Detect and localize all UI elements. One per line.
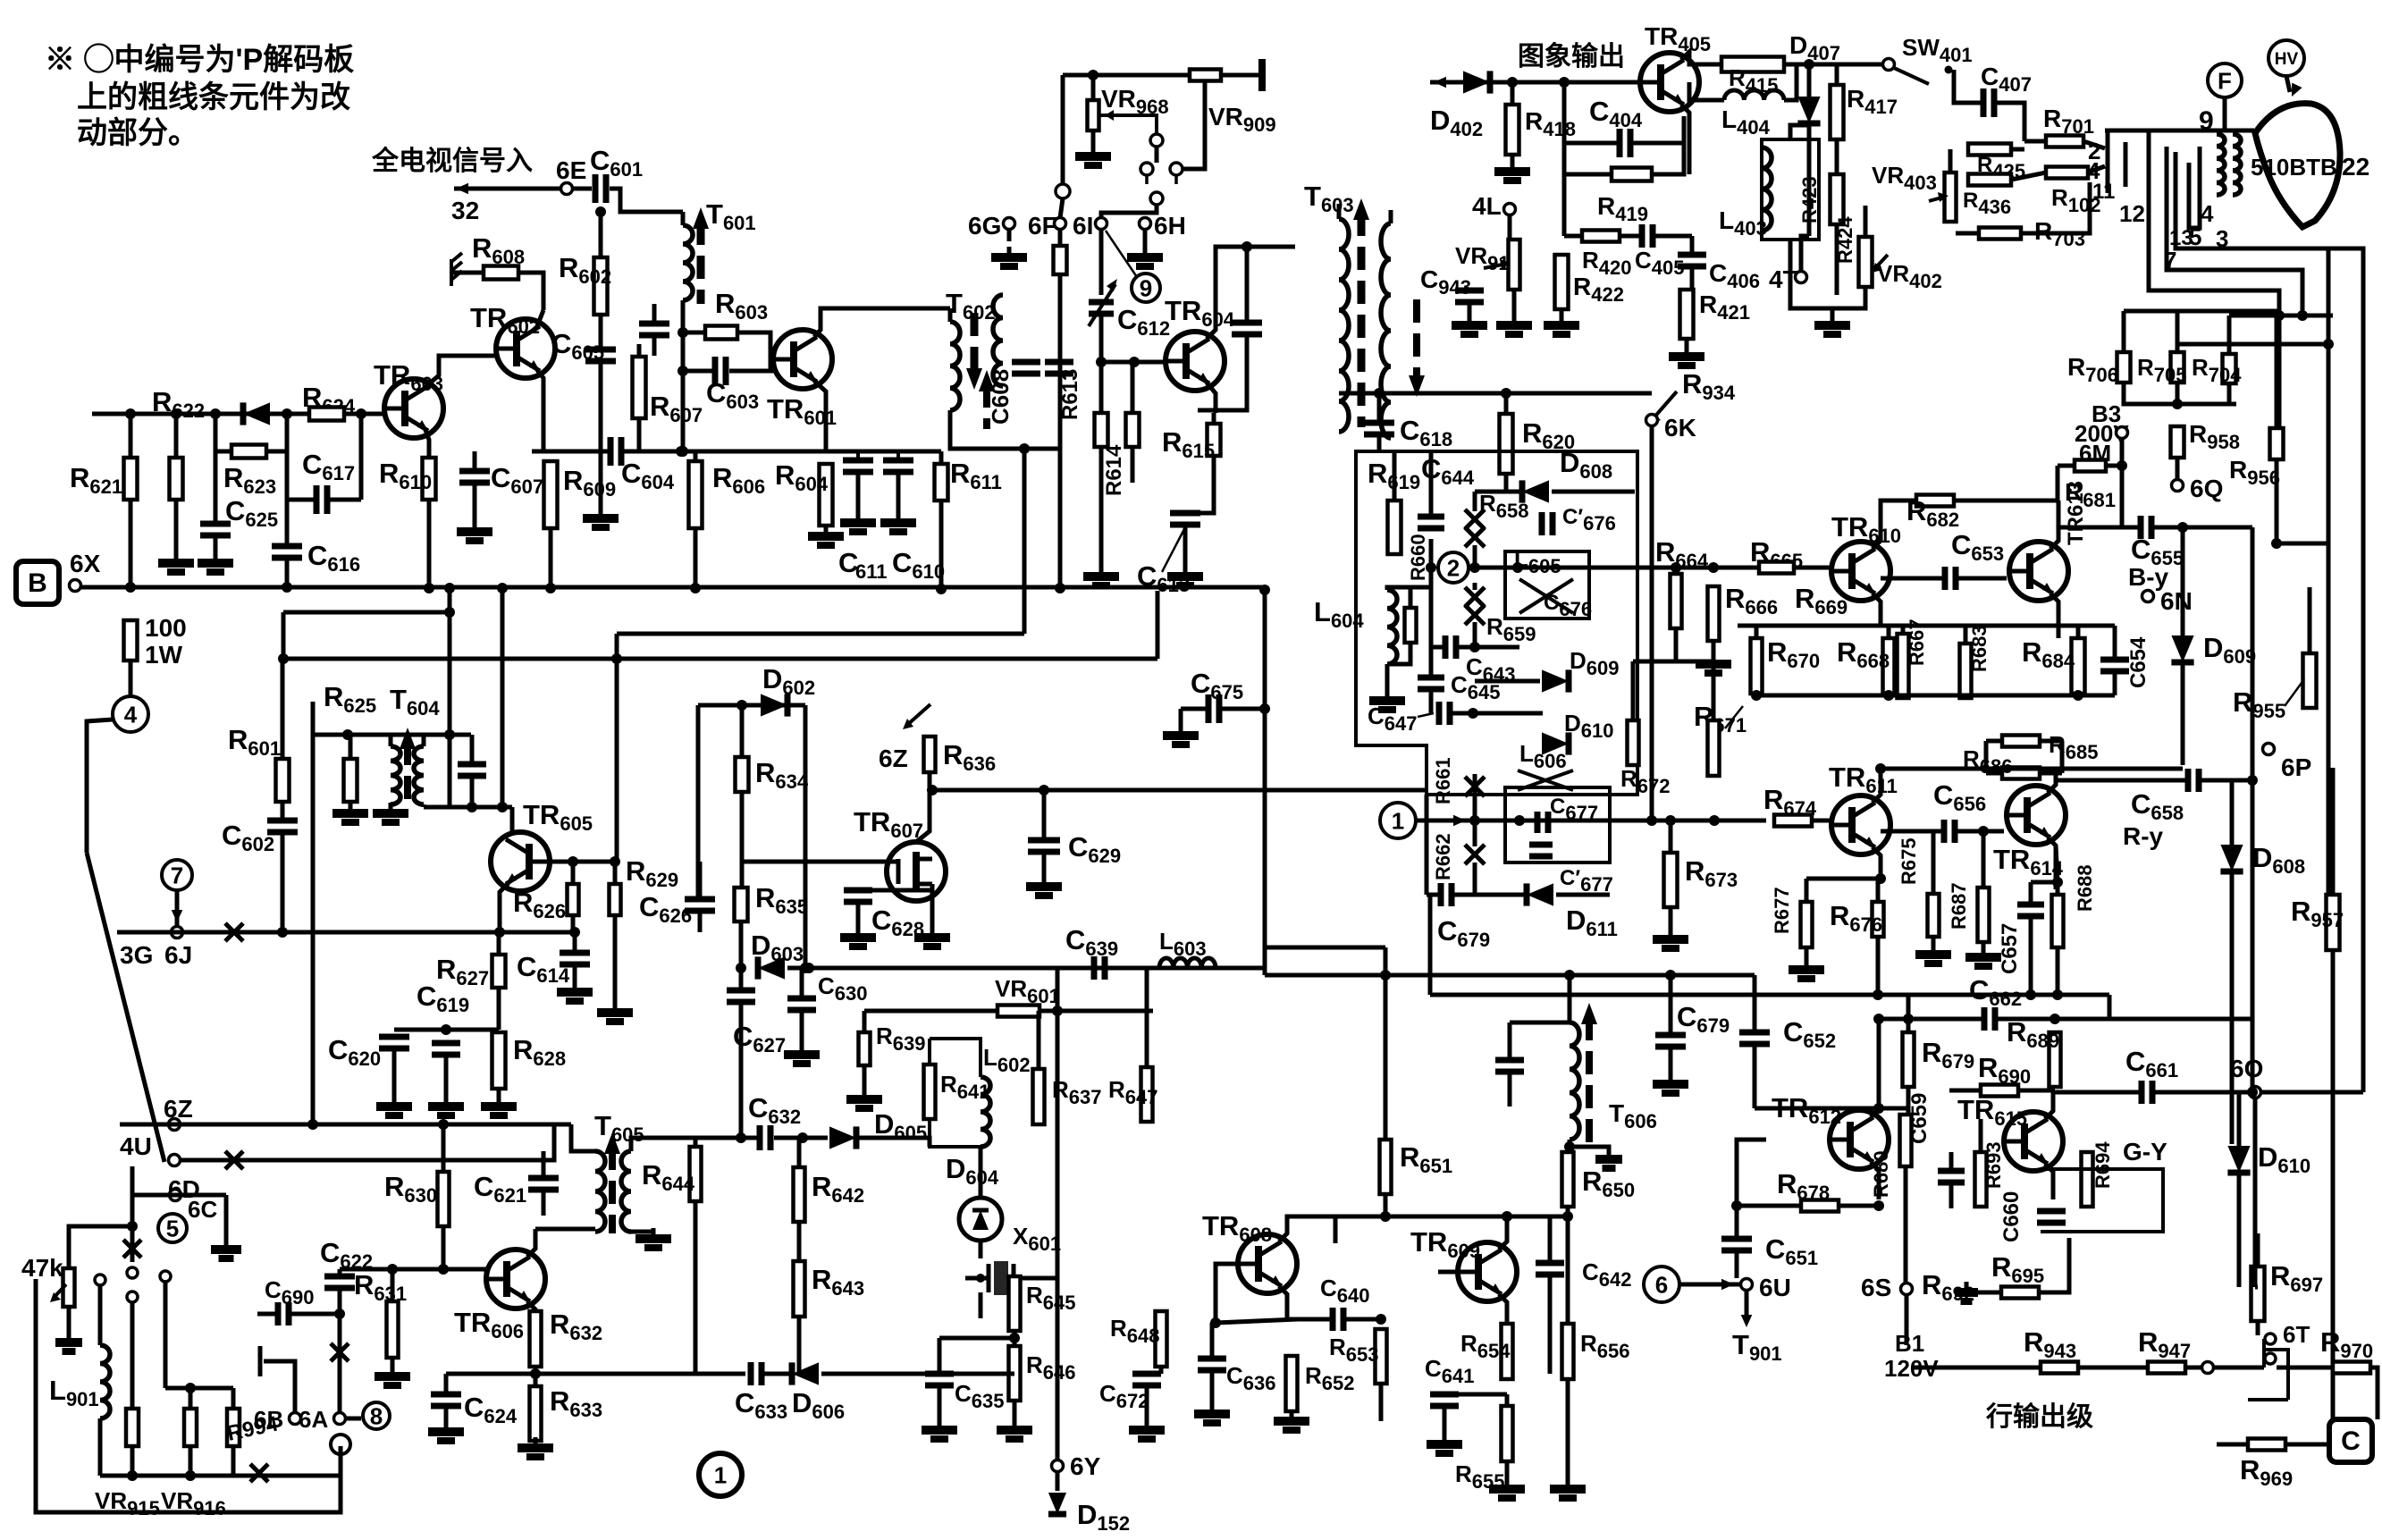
- wire TR609 emitter: [1499, 1294, 1507, 1324]
- wire R651 top: [1384, 975, 1388, 1140]
- wire rail 1085 to VR601 zone: [1057, 966, 1265, 971]
- wire C652 top: [1753, 975, 1757, 1032]
- resistor R641: [924, 1065, 936, 1119]
- capacitor C629: [1028, 840, 1060, 852]
- label C611 C610: [838, 547, 858, 578]
- wire rail 1113: [1430, 993, 2109, 997]
- junction bus R609: [545, 583, 556, 593]
- wire VR915 top: [130, 1302, 135, 1409]
- pot VR601: [997, 1006, 1039, 1017]
- label C604: [621, 458, 675, 493]
- label R706: [2067, 353, 2118, 386]
- svg-text:6N: 6N: [2160, 587, 2193, 615]
- wire rail 737: [283, 657, 1157, 661]
- wire T604 right coil down: [422, 804, 426, 807]
- resistor R652: [1286, 1356, 1298, 1411]
- terminal 6G: [1004, 218, 1015, 230]
- label 3G: [120, 941, 153, 969]
- wire C679b top: [1669, 975, 1673, 1035]
- wire C654 bottom: [2113, 671, 2117, 695]
- wire rail 860 TR611: [1881, 767, 2056, 771]
- wire R611 to bus: [939, 501, 944, 589]
- ground under T604: [373, 803, 408, 822]
- resistor R681: [2075, 460, 2106, 472]
- capacitor C635: [925, 1374, 954, 1385]
- junction rail1361 R651: [1380, 1211, 1391, 1222]
- label R703: [2034, 217, 2085, 250]
- pin label 12: [2119, 200, 2145, 227]
- svg-text:5: 5: [166, 1215, 179, 1241]
- label R607: [650, 391, 703, 426]
- wire R628 gnd: [497, 1089, 501, 1099]
- junction rail1361 TR609c: [1502, 1211, 1512, 1222]
- wire C624 rail: [446, 1372, 535, 1376]
- junction node1 b: [1709, 815, 1720, 826]
- wire tank bottom: [470, 776, 475, 807]
- wire 6H lead: [1143, 229, 1148, 247]
- wire C618 top: [1377, 393, 1382, 423]
- wire R690 right: [2018, 1089, 2055, 1093]
- capacitor C613: [1170, 513, 1200, 525]
- label 22: [2342, 153, 2369, 181]
- wire R642 top: [797, 1138, 802, 1167]
- label R652: [1305, 1362, 1355, 1394]
- transformer T603 core B: [1409, 299, 1425, 397]
- wire C662 left: [1879, 1017, 1983, 1022]
- resistor R627: [492, 955, 506, 988]
- junction at C605 column: [595, 206, 606, 217]
- wire 6Y col: [1056, 1278, 1060, 1460]
- ground C636: [1194, 1403, 1230, 1423]
- capacitor C608b: [1045, 362, 1073, 374]
- svg-text:C657: C657: [1998, 923, 2022, 974]
- switch contact 6I upper: [1150, 192, 1163, 205]
- node 6 circle: [1644, 1267, 1679, 1302]
- inductor L602: [981, 1077, 990, 1147]
- wire R656 gnd: [1566, 1379, 1570, 1482]
- wire TR608 base lead: [1216, 1264, 1238, 1323]
- label R641: [940, 1071, 990, 1103]
- label L404: [1721, 105, 1771, 139]
- wire F to coil: [2223, 97, 2227, 130]
- wire R417 down: [1835, 139, 1839, 174]
- wire pin3 staircase: [2176, 152, 2328, 895]
- wire R629 down: [613, 915, 618, 1006]
- label D407: [1789, 31, 1840, 64]
- label D152: [1077, 1499, 1130, 1535]
- wire HV to yoke: [2286, 76, 2290, 92]
- wire R419 right: [1652, 143, 1684, 174]
- wire x2605 bottom: [2327, 344, 2331, 587]
- wire D605 right: [858, 1138, 930, 1147]
- junction 385: [2323, 339, 2334, 349]
- label R957: [2291, 896, 2344, 931]
- diode D608: [1522, 480, 1549, 502]
- junction 6I column: [1096, 357, 1107, 367]
- resistor R623: [231, 445, 266, 459]
- svg-text:R-y: R-y: [2123, 822, 2164, 850]
- pot VR403: [1945, 173, 1957, 222]
- label VR968: [1101, 85, 1169, 118]
- label C607: [491, 462, 543, 498]
- wire TR604 base rail: [1101, 360, 1166, 365]
- svg-text:6Y: 6Y: [1070, 1452, 1101, 1480]
- svg-text:行输出级: 行输出级: [1985, 1402, 2093, 1432]
- ground under 6G: [991, 247, 1027, 266]
- wire D608 down: [2230, 871, 2235, 1144]
- label T604: [390, 684, 440, 720]
- wire R706 top: [2122, 311, 2126, 352]
- label R664: [1655, 536, 1709, 572]
- wire R652 gnd: [1290, 1411, 1294, 1414]
- label R424: [1834, 216, 1856, 264]
- switch contact 6F upper: [1056, 184, 1070, 198]
- wire TR606 base: [443, 1269, 486, 1279]
- L605 cross: [1519, 579, 1573, 613]
- wire T604 rail down: [448, 735, 452, 807]
- svg-text:6H: 6H: [1154, 212, 1186, 240]
- wire C647 right: [1452, 711, 1543, 716]
- wire D407 top: [1807, 64, 1812, 97]
- ground R677: [1789, 959, 1824, 979]
- wire R626 bottom: [571, 915, 576, 932]
- junction R958 top: [2172, 399, 2183, 409]
- diode D610 box: [1542, 732, 1569, 754]
- trimmer R661: [1465, 777, 1485, 796]
- svg-text:R662: R662: [1432, 833, 1454, 880]
- ground 6C rail: [211, 1239, 241, 1258]
- wire T602 bottom rail: [950, 410, 1060, 449]
- wire down to R602: [599, 212, 603, 257]
- junction C636 base: [1210, 1317, 1221, 1328]
- wire R681 left: [2058, 464, 2075, 468]
- svg-text:6J: 6J: [164, 941, 192, 969]
- wire col x1146: [1023, 449, 1027, 634]
- cross mark col: [123, 1240, 141, 1258]
- capacitor C651: [1721, 1239, 1752, 1250]
- wire R675 bottom gnd: [1932, 943, 1936, 947]
- trimmer R659 b: [1465, 605, 1485, 625]
- capacitor C605: [585, 349, 616, 361]
- label G-Y: [2123, 1138, 2167, 1166]
- junction pots rail: [185, 1383, 196, 1393]
- wire VR403 top: [1949, 149, 1953, 173]
- wire R436 right: [2011, 173, 2046, 180]
- label TR610: [1831, 511, 1901, 547]
- label 6B: [254, 1406, 283, 1433]
- label R660: [1407, 534, 1429, 581]
- ground R646: [997, 1419, 1032, 1439]
- wire C656 right: [1957, 829, 2004, 834]
- junction T601 R603: [678, 327, 688, 338]
- resistor R608: [484, 266, 518, 280]
- wire T606 cap top: [1508, 1022, 1512, 1060]
- label VR909: [1208, 103, 1276, 136]
- wire R686 left: [1986, 771, 2002, 776]
- arrowhead node1: [1453, 815, 1466, 827]
- capacitor C611: [843, 451, 873, 472]
- wire R701 right: [2083, 141, 2105, 148]
- wire B3 down: [2120, 439, 2125, 466]
- wire C635 top rail: [939, 1336, 1014, 1341]
- junction bus R611: [936, 584, 947, 594]
- ground C620: [376, 1096, 412, 1115]
- svg-text:6C: 6C: [188, 1196, 217, 1223]
- wire R658 col2: [1473, 545, 1477, 566]
- svg-text:4: 4: [2201, 200, 2214, 227]
- junction D603 x901: [800, 963, 811, 973]
- terminal 4L: [1504, 204, 1516, 215]
- label R626: [513, 887, 566, 922]
- label 图象输出: [1518, 42, 1625, 72]
- svg-text:47k: 47k: [21, 1254, 63, 1282]
- wire C619 rail: [394, 1028, 499, 1032]
- label R639: [876, 1022, 926, 1055]
- wire D407 col down: [1807, 139, 1812, 236]
- wire R661 col: [1473, 774, 1477, 795]
- svg-text:6: 6: [1655, 1271, 1668, 1298]
- resistor R633: [530, 1386, 542, 1441]
- label R632: [550, 1309, 602, 1344]
- wire rail 657 right: [2277, 542, 2328, 546]
- resistor R686: [2002, 768, 2040, 779]
- wire R957 down: [2331, 950, 2336, 1430]
- label R665: [1750, 536, 1803, 572]
- label 6Z: [164, 1095, 193, 1123]
- resistor R619: [1388, 501, 1401, 554]
- wire R686 right: [2040, 771, 2062, 776]
- label C407: [1981, 63, 2032, 96]
- transistor TR609: [1458, 1242, 1517, 1301]
- wire TR611 emitter: [1873, 847, 1881, 879]
- wire pots bottom rail: [100, 1474, 340, 1478]
- wire R614 bottom: [1131, 447, 1135, 483]
- wire C624 top: [444, 1374, 449, 1394]
- capacitor C672: [1132, 1374, 1161, 1385]
- wire pin5 staircase: [2189, 147, 2200, 228]
- wire R612 down: [1058, 274, 1063, 588]
- ground C635: [922, 1419, 957, 1439]
- label R602: [559, 252, 611, 288]
- label TR614: [1993, 844, 2064, 879]
- resistor R648: [1156, 1311, 1167, 1367]
- junction rail R666: [1708, 562, 1719, 573]
- cross mark 6J: [225, 923, 243, 941]
- pointer C647: [1418, 713, 1434, 717]
- transformer T602 primary: [950, 322, 960, 410]
- wire TR615 emitter: [2045, 1164, 2053, 1199]
- label R420: [1582, 247, 1632, 279]
- junction base R626: [568, 856, 578, 867]
- ground T606: [1595, 1149, 1622, 1168]
- label B-y: [2128, 563, 2169, 591]
- wire bus353: [2229, 314, 2333, 318]
- ground under R622: [158, 552, 194, 572]
- resistor R955: [2303, 653, 2317, 708]
- wire 47k gnd lead: [67, 1307, 72, 1335]
- wire TR603 emitter to R610: [425, 430, 429, 458]
- wire R688 down: [2056, 947, 2060, 995]
- transformer T606 core: [1581, 1003, 1597, 1142]
- capacitor C676u: [1542, 512, 1553, 535]
- wire C636 top: [1210, 1323, 1215, 1359]
- wire R668 top: [1887, 626, 1891, 638]
- svg-text:6X: 6X: [70, 550, 101, 577]
- label 6M: [2079, 440, 2111, 467]
- resistor R421: [1680, 290, 1694, 339]
- resistor R635: [735, 888, 748, 921]
- wire base loop down: [1562, 82, 1567, 174]
- resistor R647: [1141, 1067, 1153, 1122]
- svg-text:6T: 6T: [2283, 1321, 2310, 1348]
- resistor R678: [1801, 1200, 1839, 1212]
- diode D152: [1048, 1493, 1066, 1514]
- label R653: [1329, 1334, 1379, 1366]
- capacitor C604: [610, 437, 621, 466]
- node 4 circle: [113, 696, 148, 732]
- wire X601 col down: [979, 1292, 983, 1318]
- capacitor C633: [751, 1362, 762, 1385]
- wire D611 right: [1556, 893, 1610, 897]
- wire pots top rail: [165, 1386, 233, 1391]
- wire R703 left: [1956, 231, 1979, 236]
- wire C617 right: [327, 498, 361, 502]
- wire R424 top: [1864, 206, 1868, 237]
- wire column x321: [285, 414, 290, 546]
- label R684: [2022, 636, 2075, 672]
- resistor R704: [2223, 354, 2236, 383]
- wire TR605 emitter: [500, 883, 509, 932]
- wire col 1600: [1428, 895, 1433, 995]
- svg-text:R694: R694: [2092, 1141, 2114, 1189]
- arrowhead node7: [172, 910, 183, 922]
- label C617: [302, 449, 355, 484]
- capacitor C679: [1441, 883, 1452, 906]
- label R970: [2320, 1326, 2373, 1362]
- wire R662 col2: [1473, 863, 1477, 895]
- resistor R655: [1502, 1406, 1513, 1461]
- junction node1 a: [1665, 815, 1676, 826]
- wire R603 to TR601 base column: [737, 332, 770, 371]
- ground under R421: [1669, 346, 1704, 366]
- label 6G: [968, 212, 1001, 240]
- label R693: [1982, 1141, 2005, 1189]
- wire TR614 emitter: [2048, 837, 2056, 889]
- resistor R632: [530, 1311, 542, 1367]
- label C405: [1635, 247, 1685, 279]
- wire C616 to bus: [285, 558, 290, 587]
- resistor R639: [859, 1032, 871, 1065]
- label 6X: [70, 550, 101, 577]
- diode D609 right: [2171, 635, 2193, 662]
- label L606: [1519, 740, 1567, 772]
- wire R619 top: [1393, 451, 1397, 501]
- wire C625 gnd lead: [214, 535, 218, 556]
- transformer T603 winding A: [1339, 219, 1349, 432]
- L606 tuned box: [1505, 787, 1610, 863]
- capacitor tuning TR604: [1232, 323, 1262, 334]
- wire R601 top: [281, 659, 285, 759]
- label R624: [302, 382, 356, 417]
- label 6K: [1664, 414, 1696, 442]
- junction rail1091 T606: [1564, 970, 1575, 980]
- wire contact to 6F col: [1061, 75, 1065, 184]
- resistor R706: [2117, 352, 2131, 383]
- wire T603 winding B top: [1389, 210, 1393, 223]
- wire R685 right: [2040, 739, 2062, 744]
- capacitor C677: [1537, 812, 1548, 833]
- wire C643 rail: [1431, 645, 1444, 650]
- junction TR604 tank: [1242, 241, 1252, 252]
- ground under R604: [808, 526, 844, 545]
- label SW401: [1902, 34, 1973, 66]
- label 6O: [2230, 1055, 2263, 1082]
- pin label 3: [2216, 225, 2228, 252]
- wire VR968 bottom: [1091, 130, 1096, 147]
- label C651: [1765, 1233, 1818, 1269]
- label C-677: [1560, 866, 1613, 896]
- junction rail903 riser: [497, 802, 508, 812]
- label TR601: [767, 393, 837, 429]
- junction x1146 T602: [1019, 443, 1030, 454]
- resistor R672: [1628, 720, 1639, 765]
- wire R648 down: [1159, 1367, 1164, 1374]
- wire C679 col: [1425, 795, 1429, 895]
- wire pin7 staircase: [2167, 147, 2302, 316]
- label R418: [1525, 107, 1576, 140]
- ground under C607: [457, 521, 492, 541]
- svg-text:4T: 4T: [1769, 265, 1798, 293]
- label C633: [735, 1387, 787, 1423]
- label R681: [2065, 478, 2116, 511]
- switch SW401 pivot: [1883, 59, 1895, 71]
- wire TR604 tank cap: [1245, 247, 1250, 323]
- capacitor C620: [379, 1037, 409, 1048]
- resistor R695: [2001, 1287, 2039, 1299]
- resistor R671 body: [1708, 720, 1720, 776]
- junction base R629: [610, 856, 620, 867]
- svg-text:C: C: [2341, 1426, 2361, 1456]
- label R934: [1682, 368, 1736, 404]
- terminal 6Z: [169, 1119, 181, 1131]
- wire C651 top: [1735, 1206, 1739, 1239]
- wire rail 1091: [1265, 973, 1755, 978]
- wire base rail to C603: [683, 369, 714, 374]
- label 6F: [1028, 212, 1057, 240]
- wire R601 to C602: [281, 802, 285, 820]
- wire rail737 to bus riser: [1156, 591, 1160, 659]
- capacitor C654: [2100, 660, 2129, 671]
- wire R660 top: [1409, 587, 1413, 608]
- label TR603: [374, 359, 443, 395]
- wire bus main: [81, 585, 1265, 590]
- wire C635 lead: [938, 1338, 942, 1374]
- wire T604 right top: [422, 735, 426, 746]
- wire R681 right: [2106, 464, 2122, 468]
- wire C658 left: [2056, 778, 2187, 783]
- label R622: [152, 386, 205, 422]
- capacitor C643: [1445, 635, 1456, 659]
- label 6Z b: [879, 745, 908, 772]
- pin label 11: [2092, 180, 2115, 204]
- label 6J: [164, 941, 192, 969]
- label TR602: [470, 302, 540, 338]
- wire D608 wire: [1475, 490, 1519, 494]
- wire R659 col2: [1473, 622, 1477, 647]
- svg-text:F: F: [2218, 67, 2232, 94]
- switch contact b: [1140, 163, 1153, 175]
- junction C662 TR612: [1873, 1014, 1884, 1024]
